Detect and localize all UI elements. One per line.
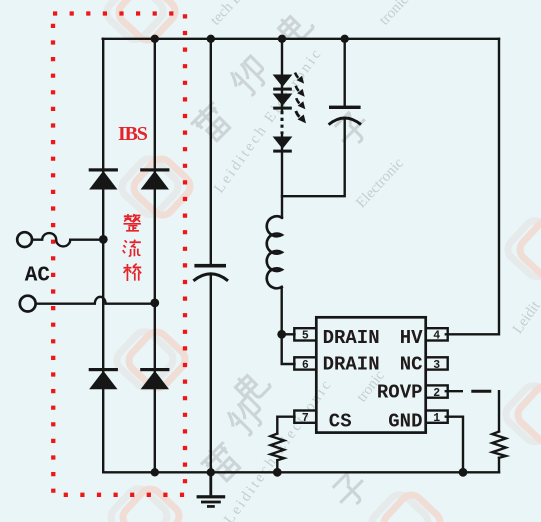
watermark char zi 1 [331,108,374,151]
diode D2 [140,168,169,189]
wire LED dotted continuation [281,111,284,134]
wire inductor to drain node [281,287,283,334]
node AC1-bridge [99,235,108,244]
wire bulk cap lower [210,275,212,473]
IC pin labels [323,327,423,432]
wire pin 2 stub [446,390,462,392]
wire pin 1 to rail [446,417,463,473]
svg-text:DRAIN: DRAIN [323,327,380,349]
watermark char mao 2 [223,394,268,439]
pin 2 [426,385,448,397]
svg-text:HV: HV [400,327,423,349]
fuse squiggle [32,233,103,246]
svg-text:6: 6 [302,359,309,372]
svg-text:2: 2 [433,387,440,400]
label zheng-liu-qiao (rectifier bridge) hand-drawn [123,214,142,281]
svg-text:NC: NC [400,354,423,376]
svg-text:4: 4 [433,330,440,343]
wire drain node to pin 5 [282,333,295,335]
LED arrow 4 [296,111,306,123]
pin 7 [294,411,316,423]
capacitor C2 [329,106,361,125]
wire R2 to rail [498,458,500,473]
wire top rail [103,38,499,40]
svg-text:GND: GND [388,410,422,432]
node rail-GNDpin [459,468,468,477]
watermark logo 7 [367,490,444,522]
watermark char dian 1 [275,7,314,46]
wire bulk cap branch [210,39,212,265]
node top-C2 [341,35,349,43]
svg-text:DRAIN: DRAIN [323,354,380,376]
pin 1 [426,411,448,423]
bridge outline (red dotted box) [53,14,185,495]
watermark char mao 1 [226,54,271,99]
wire bridge right leg [154,39,156,473]
watermark logo 3 [112,327,189,392]
char zheng (rectifier) [123,214,140,231]
pin numbers [302,330,440,425]
wire C2 bottom to LED string [282,119,345,197]
svg-text:7: 7 [302,412,309,425]
op IC U1 body [316,317,425,432]
wire Rcs to rail [276,460,278,472]
wire bridge left leg [102,39,104,473]
node top-D2 [151,35,159,43]
watermark char dian 2 [232,366,271,405]
char liu (flow) [123,240,141,257]
pin 4 [426,328,448,340]
svg-text:ROVP: ROVP [377,382,423,404]
diode D1 [89,168,118,189]
capacitor C1 (bulk) [193,264,228,281]
wire ROVP vertical [498,391,500,431]
svg-text:AC: AC [25,264,51,287]
wire LED branch lower [281,134,283,218]
wire LED branch upper [281,39,283,111]
LED arrow 1 [295,73,304,84]
AC terminal 2 [20,296,36,312]
svg-text:5: 5 [302,330,309,343]
wire pin 7 to Rcs [277,417,294,434]
node AC2-bridge [150,299,159,308]
node rail-D4 [151,468,159,476]
watermark logo 2 [102,0,179,45]
resistor R2 (ROVP) [492,432,506,458]
svg-text:3: 3 [433,359,440,372]
LED LED2 [273,94,293,110]
LED LED1 [273,75,293,91]
resistor R1 (CS) [271,434,284,461]
node drain [277,330,286,339]
pin 5 [294,328,316,340]
node rail-C1 [207,468,215,476]
wire C2 branch top [344,39,346,106]
LED arrow 3 [296,98,305,109]
pin 6 [294,357,316,369]
wire right HV vertical [446,39,499,335]
LED arrow 2 [296,86,305,97]
wire dash segment [473,390,490,393]
inductor L1 [267,216,282,288]
watermark char lei 1 [188,99,235,146]
LED LED3 [273,137,293,153]
pin 3 [426,357,448,369]
wire drain node to pin 6 [282,334,295,364]
node top-LED [278,35,286,43]
svg-text:CS: CS [329,410,352,432]
watermark logo 5 [503,216,541,281]
diode D3 [89,368,118,389]
ground [197,472,226,508]
watermark logo 1 [117,154,194,219]
svg-text:IBS: IBS [118,123,148,145]
char qiao (bridge) [123,264,141,281]
AC terminal 1 [17,232,32,247]
diode D4 [140,368,169,389]
watermark char lei 2 [198,439,245,486]
watermark char zi 2 [329,469,372,512]
node rail-R1 [273,468,282,477]
node top-C1 [207,35,215,43]
svg-text:1: 1 [433,412,440,425]
watermark logo 4 [106,484,183,522]
wire bottom ground rail [103,471,499,473]
wire AC2 with hop [36,297,155,304]
watermark logo 6 [501,381,541,446]
